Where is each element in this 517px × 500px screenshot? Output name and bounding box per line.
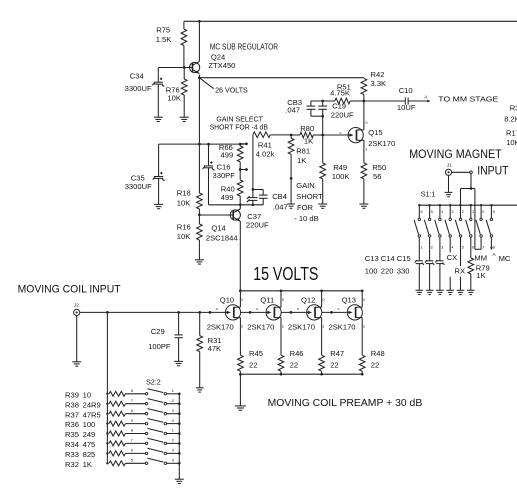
svg-text:5: 5 [462,245,464,249]
svg-text:R37: R37 [65,410,79,419]
svg-text:3300UF: 3300UF [125,84,152,93]
ground R49 [318,204,327,208]
resistor R45 [238,349,263,374]
svg-text:499: 499 [221,193,234,202]
wire Q12 source [321,318,323,356]
svg-text:8.2K: 8.2K [504,115,517,124]
svg-text:475: 475 [83,440,96,449]
ground C35 [154,204,163,208]
wire CX position 4 [447,237,458,290]
svg-text:0: 0 [482,210,484,214]
label GAIN SELECT [210,114,268,131]
capacitor C29 [148,312,183,361]
svg-text:o: o [216,307,218,311]
svg-text:S1:1: S1:1 [421,189,436,198]
wire Q14 base [199,214,230,216]
wire Q10 drain [239,291,241,307]
resistor R31 [197,312,222,387]
svg-text:Q10: Q10 [220,296,234,305]
label R3 cut off [504,104,517,124]
svg-text:1K: 1K [83,460,92,469]
resistor R80 [291,124,323,145]
resistor R34 [65,440,145,449]
wire R80 to Q15 gate [321,134,348,137]
svg-text:9: 9 [493,210,495,214]
svg-text:CB4: CB4 [272,192,287,201]
svg-text:SHORT: SHORT [296,192,323,201]
svg-text:R39: R39 [65,390,79,399]
svg-text:s: s [323,324,325,328]
wire RX position 5 [455,237,466,290]
node R75/R76/base junction [183,66,186,69]
svg-text:22: 22 [249,360,257,369]
svg-text:C14: C14 [381,254,395,263]
switch S1 position 5 [455,205,464,249]
resistor R51 [311,82,364,104]
svg-text:3.3K: 3.3K [371,79,387,88]
svg-text:R80: R80 [300,124,314,133]
ground C29 [174,361,183,365]
switch S2 row 5 [131,428,181,434]
svg-text:s: s [363,324,365,328]
resistor R75 [156,21,187,67]
transistor Q15 [340,121,396,151]
svg-text:MC: MC [499,254,511,263]
resistor R33 [65,450,145,459]
svg-text:MOVING MAGNET: MOVING MAGNET [409,148,502,161]
svg-text:o: o [338,307,340,311]
wire Q14 collector [239,205,241,209]
wire Q15 source [362,140,365,163]
svg-text:2SK170: 2SK170 [247,322,274,331]
label INPUT (MM) [477,164,508,177]
resistor R38 [65,400,145,409]
node R41/R80/R81 [290,134,293,137]
wire J1 to pin [452,171,470,173]
svg-text:RX: RX [455,267,466,276]
svg-text:5: 5 [431,210,433,214]
svg-text:Q14: Q14 [211,223,225,232]
svg-text:FOR: FOR [297,203,314,212]
svg-text:3: 3 [172,449,174,453]
switch S2 row 6 [131,438,181,444]
svg-text:R38: R38 [65,400,79,409]
svg-text:4: 4 [172,459,174,463]
resistor R48 [359,349,384,374]
switch S2 row 3 [131,409,181,415]
wire Q13 source [361,318,363,356]
svg-text:47K: 47K [208,344,222,353]
capacitor C34 [125,68,165,118]
svg-text:4.02k: 4.02k [256,150,275,159]
svg-text:4.75K: 4.75K [330,89,350,98]
label MOVING COIL INPUT [18,284,121,296]
svg-text:24R9: 24R9 [83,400,101,409]
wire emitter to divider [198,78,200,144]
label R17 [506,129,517,147]
svg-text:100K: 100K [332,172,350,181]
svg-text:C34: C34 [130,72,144,81]
svg-text:2SK170: 2SK170 [288,322,315,331]
svg-text:5: 5 [131,459,133,463]
wire top supply rail [184,20,517,22]
svg-text:47R5: 47R5 [83,410,101,419]
svg-text:10K: 10K [506,138,517,147]
switch S1 position 3 [435,205,444,249]
wire S1 bus [418,204,517,206]
ground S1 column 4 [446,290,454,294]
svg-text:S2:2: S2:2 [146,378,161,387]
switch S2 row 1 [131,389,181,395]
svg-text:0: 0 [363,298,365,302]
svg-text:o: o [256,307,258,311]
wire source rail [239,373,364,376]
svg-text:C15: C15 [397,254,411,263]
svg-text:2SK170: 2SK170 [329,322,356,331]
svg-text:.047: .047 [273,203,288,212]
svg-text:22: 22 [330,360,338,369]
svg-text:330PF: 330PF [213,171,236,180]
capacitor C37 [246,190,269,230]
resistor R32 [65,460,145,469]
node Q14 base [198,213,201,216]
wire Q15 drain [362,101,365,130]
svg-text:CX: CX [447,253,458,262]
svg-text:1: 1 [172,429,174,433]
svg-text:J2: J2 [74,303,79,309]
wire MC input [80,311,226,314]
svg-text:R81: R81 [296,146,310,155]
svg-text:2: 2 [172,439,174,443]
svg-text:8: 8 [131,429,133,433]
svg-text:56: 56 [373,172,381,181]
pin open circle [470,171,473,174]
svg-text:R32: R32 [65,460,79,469]
ground S1 column 2 [426,290,434,294]
svg-text:100: 100 [365,267,378,276]
resistor R37 [65,410,145,419]
svg-text:1K: 1K [476,271,485,280]
svg-text:C10: C10 [399,86,413,95]
resistor R66 [219,143,243,170]
wire Q24 collector [198,20,201,61]
wire Q11 source [280,318,282,356]
svg-text:R47: R47 [330,349,344,358]
svg-text:2SK170: 2SK170 [207,322,234,331]
capacitor C10 [364,86,431,112]
svg-text:R18: R18 [177,189,191,198]
ground S1 column 3 [436,290,444,294]
svg-text:2: 2 [172,399,174,403]
resistor R18 [177,144,202,215]
svg-text:249: 249 [83,430,96,439]
switch S1 position 7 [476,205,485,249]
capacitor CB4 [253,190,288,212]
svg-text:Q15: Q15 [368,128,382,137]
switch S2 row 2 [131,399,181,405]
resistor R35 [65,430,145,439]
wire 26V rail [199,77,364,79]
switch S2 row 4 [131,419,181,425]
node R42/R51/C10 [363,100,366,103]
wire gate bus segments [241,311,347,314]
svg-text:C35: C35 [131,173,145,182]
svg-text:1K: 1K [304,136,313,145]
svg-text:7: 7 [131,439,133,443]
svg-text:R41: R41 [258,141,272,150]
svg-text:s: s [282,324,284,328]
wire Q11 drain [280,291,282,307]
label 26 VOLTS with pointer [199,78,247,95]
svg-text:o: o [297,307,299,311]
wire MM input routing [461,174,482,250]
transistor Q10 [207,296,244,332]
svg-text:10K: 10K [167,94,181,103]
svg-text:1K: 1K [297,156,306,165]
svg-text:7: 7 [131,399,133,403]
label S1:1 [421,189,436,198]
resistor R49 [320,135,350,204]
label 15 VOLTS [253,263,318,284]
capacitor C35 [125,144,165,204]
svg-text:R49: R49 [333,163,347,172]
wire S2 left bus [106,312,108,463]
ground J1 [445,175,453,196]
capacitor C13 [415,237,424,290]
svg-text:499: 499 [221,151,234,160]
svg-text:3: 3 [172,409,174,413]
svg-text:220UF: 220UF [331,110,354,119]
svg-text:22: 22 [371,360,379,369]
svg-text:1.5K: 1.5K [156,35,172,44]
svg-text:825: 825 [83,450,96,459]
svg-text:MM: MM [474,253,487,262]
svg-text:R50: R50 [372,163,386,172]
switch S1 position 2 [424,205,433,249]
wire gain top [159,143,247,146]
svg-text:22: 22 [290,360,298,369]
wire S2 right bus [178,394,180,479]
svg-text:MOVING COIL PREAMP + 30 dB: MOVING COIL PREAMP + 30 dB [268,398,423,409]
resistor R42 [361,70,386,101]
node gain select mid stub [239,168,248,171]
svg-text:C29: C29 [151,327,165,336]
svg-text:o: o [340,131,342,135]
capacitor C16 [203,144,236,205]
wire R41 left drop [252,135,255,191]
svg-text:J1: J1 [447,162,452,168]
svg-text:MOVING COIL INPUT: MOVING COIL INPUT [18,284,121,296]
svg-text:2SK170: 2SK170 [368,139,395,148]
resistor R16 [177,215,202,260]
svg-text:4: 4 [441,210,443,214]
svg-text:1: 1 [421,245,423,249]
svg-text:R48: R48 [371,349,385,358]
connector J2 [74,303,80,316]
svg-text:4: 4 [451,245,453,249]
svg-text:10K: 10K [177,199,191,208]
svg-text:15 VOLTS: 15 VOLTS [253,263,318,284]
svg-text:GAIN: GAIN [296,181,315,190]
transistor Q24 [189,53,235,74]
resistor R39 [65,390,145,399]
svg-text:R36: R36 [65,420,79,429]
svg-text:220: 220 [381,267,394,276]
capacitor C19 [318,100,354,135]
svg-text:MC SUB REGULATOR: MC SUB REGULATOR [210,42,278,51]
svg-text:220UF: 220UF [246,221,269,230]
ground source rail [235,374,246,410]
ground J2 [72,316,81,367]
svg-text:6: 6 [421,210,423,214]
node Q24 emitter 26V [198,75,201,80]
svg-text:R16: R16 [177,222,191,231]
svg-text:R33: R33 [65,450,79,459]
svg-text:7: 7 [482,245,484,249]
svg-text:R3: R3 [510,104,517,113]
ground S1 column 6 [467,290,475,294]
svg-text:R46: R46 [290,349,304,358]
svg-text:0: 0 [282,298,284,302]
wire Q14 emitter to 15V rail [239,221,241,291]
ground S2 [175,479,184,483]
label MC SUB REGULATOR [210,42,278,51]
svg-text:INPUT: INPUT [477,164,508,177]
svg-text:R34: R34 [65,440,79,449]
svg-text:R17: R17 [506,129,517,138]
svg-text:ZTX450: ZTX450 [208,61,235,70]
svg-text:R35: R35 [65,430,79,439]
ground R76 [180,117,189,121]
resistor R76 [166,68,187,118]
wire Q10 source [239,318,241,356]
ground S1 column 5 [457,290,465,294]
svg-text:2: 2 [462,210,464,214]
svg-text:26 VOLTS: 26 VOLTS [215,85,248,94]
svg-text:C13: C13 [365,254,379,263]
svg-text:Q11: Q11 [260,296,274,305]
transistor Q11 [247,296,284,332]
svg-text:0: 0 [366,121,368,125]
capacitor C15 [435,237,444,290]
resistor R81 [288,135,310,204]
ground R16 [195,260,204,264]
resistor R40 [221,170,243,205]
svg-text:5: 5 [131,419,133,423]
switch S1 position 6 [466,205,475,249]
svg-text:C37: C37 [247,212,261,221]
svg-text:3: 3 [451,210,453,214]
resistor R46 [278,349,303,374]
connector J1 [445,162,452,175]
svg-text:R45: R45 [249,349,263,358]
svg-text:10K: 10K [177,232,191,241]
svg-text:100: 100 [83,420,96,429]
ground R31 [196,388,204,392]
resistor R41 [253,132,291,159]
label S2:2 [146,378,161,387]
svg-text:SHORT FOR -4 dB: SHORT FOR -4 dB [210,123,268,132]
transistor Q13 [329,296,366,332]
svg-text:4: 4 [172,419,174,423]
label MOVING COIL PREAMP [268,398,423,409]
svg-text:1: 1 [472,210,474,214]
ground S1 column 1 [416,290,424,294]
wire gain bottom [209,203,264,206]
switch S1 position 1 [414,205,423,249]
ground R50 [359,204,368,208]
svg-text:0: 0 [323,298,325,302]
label MOVING MAGNET [409,148,502,161]
transistor Q12 [288,296,325,332]
svg-text:R42: R42 [371,70,385,79]
svg-text:s: s [241,324,243,328]
wire MC position 8 [490,237,511,263]
ground C34 [154,117,163,121]
svg-text:Q12: Q12 [301,296,315,305]
label TO MM STAGE [438,95,498,104]
transistor Q14 [206,209,241,242]
capacitor C14 [425,237,434,290]
resistor R47 [319,349,344,374]
resistor R50 [361,163,386,204]
svg-text:6: 6 [131,449,133,453]
label C13 C14 C15 values [365,254,411,276]
svg-text:2: 2 [431,245,433,249]
wire Q13 drain [361,291,363,307]
svg-text:8: 8 [493,245,495,249]
switch S1 position 4 [445,205,454,249]
svg-text:330: 330 [397,267,410,276]
svg-text:.047: .047 [285,106,300,115]
svg-text:C19: C19 [332,102,346,111]
label GAIN SHORT FOR -10dB [294,181,323,223]
switch S2 row 8 [131,458,181,464]
switch S2 row 7 [131,448,181,454]
wire 15V drain rail [239,289,364,292]
svg-text:6: 6 [472,245,474,249]
svg-text:6: 6 [131,409,133,413]
wire Q12 drain [321,291,323,307]
svg-text:100PF: 100PF [148,342,171,351]
svg-text:8: 8 [131,389,133,393]
resistor R36 [65,420,145,429]
svg-text:10UF: 10UF [397,103,416,112]
ground R81 [287,204,295,208]
resistor R79 [468,237,490,290]
svg-text:0: 0 [241,298,243,302]
svg-text:10: 10 [83,390,91,399]
capacitor CB3 [285,98,322,116]
node gain select top stub [240,142,248,145]
switch S1 position 8 [486,205,495,249]
wire Q24 base [158,67,189,69]
svg-text:2SC1844: 2SC1844 [206,233,238,242]
svg-text:- 10 dB: - 10 dB [294,214,318,223]
svg-text:Q13: Q13 [342,296,356,305]
svg-text:s: s [366,147,368,151]
svg-text:TO MM STAGE: TO MM STAGE [438,95,498,104]
svg-text:3300UF: 3300UF [125,182,152,191]
svg-text:1: 1 [172,389,174,393]
svg-text:3: 3 [441,245,443,249]
svg-text:R75: R75 [156,25,170,34]
